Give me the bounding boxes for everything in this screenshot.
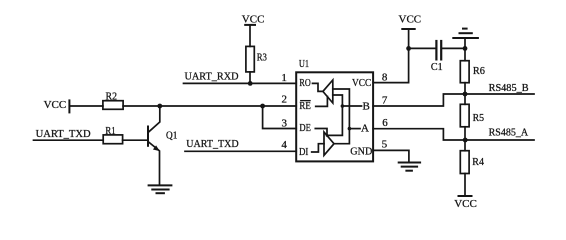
svg-text:B: B	[363, 101, 370, 113]
svg-text:1: 1	[281, 72, 287, 84]
svg-text:VCC: VCC	[44, 99, 67, 111]
svg-text:VCC: VCC	[399, 13, 422, 25]
svg-text:8: 8	[382, 72, 388, 84]
svg-text:DE: DE	[299, 122, 311, 134]
svg-text:4: 4	[281, 139, 287, 151]
svg-text:RE: RE	[299, 100, 311, 112]
svg-text:5: 5	[382, 138, 388, 150]
svg-text:2: 2	[282, 94, 288, 106]
svg-text:R2: R2	[106, 91, 118, 103]
svg-text:VCC: VCC	[352, 77, 371, 89]
svg-text:A: A	[361, 122, 369, 134]
svg-text:R5: R5	[473, 112, 485, 124]
svg-text:UART_RXD: UART_RXD	[185, 71, 239, 83]
svg-text:6: 6	[382, 117, 388, 129]
svg-text:3: 3	[282, 117, 288, 129]
svg-text:Q1: Q1	[166, 130, 177, 142]
svg-text:UART_TXD: UART_TXD	[186, 138, 239, 150]
svg-text:GND: GND	[350, 146, 372, 158]
svg-text:VCC: VCC	[242, 14, 265, 26]
svg-text:R1: R1	[105, 125, 115, 137]
svg-text:R4: R4	[472, 156, 484, 168]
svg-text:RS485_A: RS485_A	[489, 127, 529, 139]
svg-text:VCC: VCC	[454, 198, 477, 210]
svg-text:R6: R6	[473, 65, 485, 77]
svg-text:RO: RO	[299, 77, 310, 89]
svg-text:U1: U1	[299, 58, 309, 70]
svg-text:7: 7	[382, 95, 388, 107]
svg-text:RS485_B: RS485_B	[489, 82, 529, 94]
svg-text:C1: C1	[431, 61, 443, 73]
svg-text:UART_TXD: UART_TXD	[36, 128, 91, 140]
svg-text:DI: DI	[299, 146, 309, 158]
svg-text:R3: R3	[257, 51, 268, 63]
